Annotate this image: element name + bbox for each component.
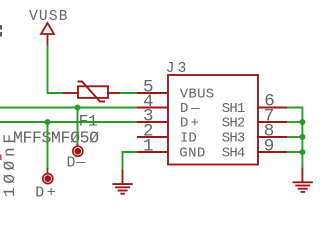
junction dot SH3	[299, 134, 305, 140]
pin 7	[258, 121, 287, 123]
pin 3	[137, 121, 168, 123]
wire D- vertical drop	[77, 108, 79, 146]
junction dot SH4	[299, 149, 305, 155]
svg-text:SH4: SH4	[222, 146, 246, 162]
svg-text:VUSB: VUSB	[29, 9, 68, 25]
pin 8	[258, 136, 287, 138]
fuse F1	[63, 82, 120, 102]
wire fuse to J3 pin 5	[120, 92, 137, 94]
ground right	[293, 167, 313, 192]
wire pin 1 elbow	[123, 152, 138, 170]
pin 9	[258, 151, 287, 153]
wire VUSB elbow to fuse	[47, 92, 63, 94]
test point D-	[73, 144, 83, 156]
svg-text:GND: GND	[179, 146, 205, 162]
wire net D- horizontal	[0, 107, 137, 109]
junction dot D+	[45, 119, 51, 125]
clipped capacitor plate tick at left edge	[0, 155, 2, 161]
pin 2	[137, 136, 168, 138]
svg-text:SH2: SH2	[222, 116, 246, 132]
svg-text:MFFSMFØ5Ø: MFFSMFØ5Ø	[13, 129, 99, 148]
wire net D+ horizontal	[0, 121, 137, 123]
test point D+	[43, 168, 53, 184]
pin 5	[137, 92, 168, 94]
svg-text:D—: D—	[67, 155, 87, 172]
wire pin 9 stub	[287, 151, 302, 153]
ground left	[112, 170, 132, 194]
junction dot D-	[75, 105, 81, 111]
clipped gray text at left edge	[0, 25, 2, 37]
wire pin 8 stub	[287, 136, 302, 138]
wire D+ vertical drop	[47, 122, 49, 169]
svg-text:1ØØnF: 1ØØnF	[1, 134, 19, 197]
svg-text:ID: ID	[180, 131, 197, 147]
svg-text:9: 9	[264, 137, 275, 157]
wire shield bus vertical	[301, 121, 303, 167]
svg-text:SH3: SH3	[222, 131, 246, 147]
wire pin 6 elbow	[287, 108, 302, 123]
wire VUSB vertical	[47, 46, 49, 94]
wire pin 7 stub	[287, 121, 302, 123]
pin 6	[258, 107, 287, 109]
pin 4	[137, 107, 168, 109]
svg-text:1: 1	[143, 137, 154, 157]
connector J3 body	[168, 75, 258, 165]
junction dot SH2	[299, 119, 305, 125]
pin 1	[137, 151, 168, 153]
power flag VUSB	[41, 23, 54, 46]
